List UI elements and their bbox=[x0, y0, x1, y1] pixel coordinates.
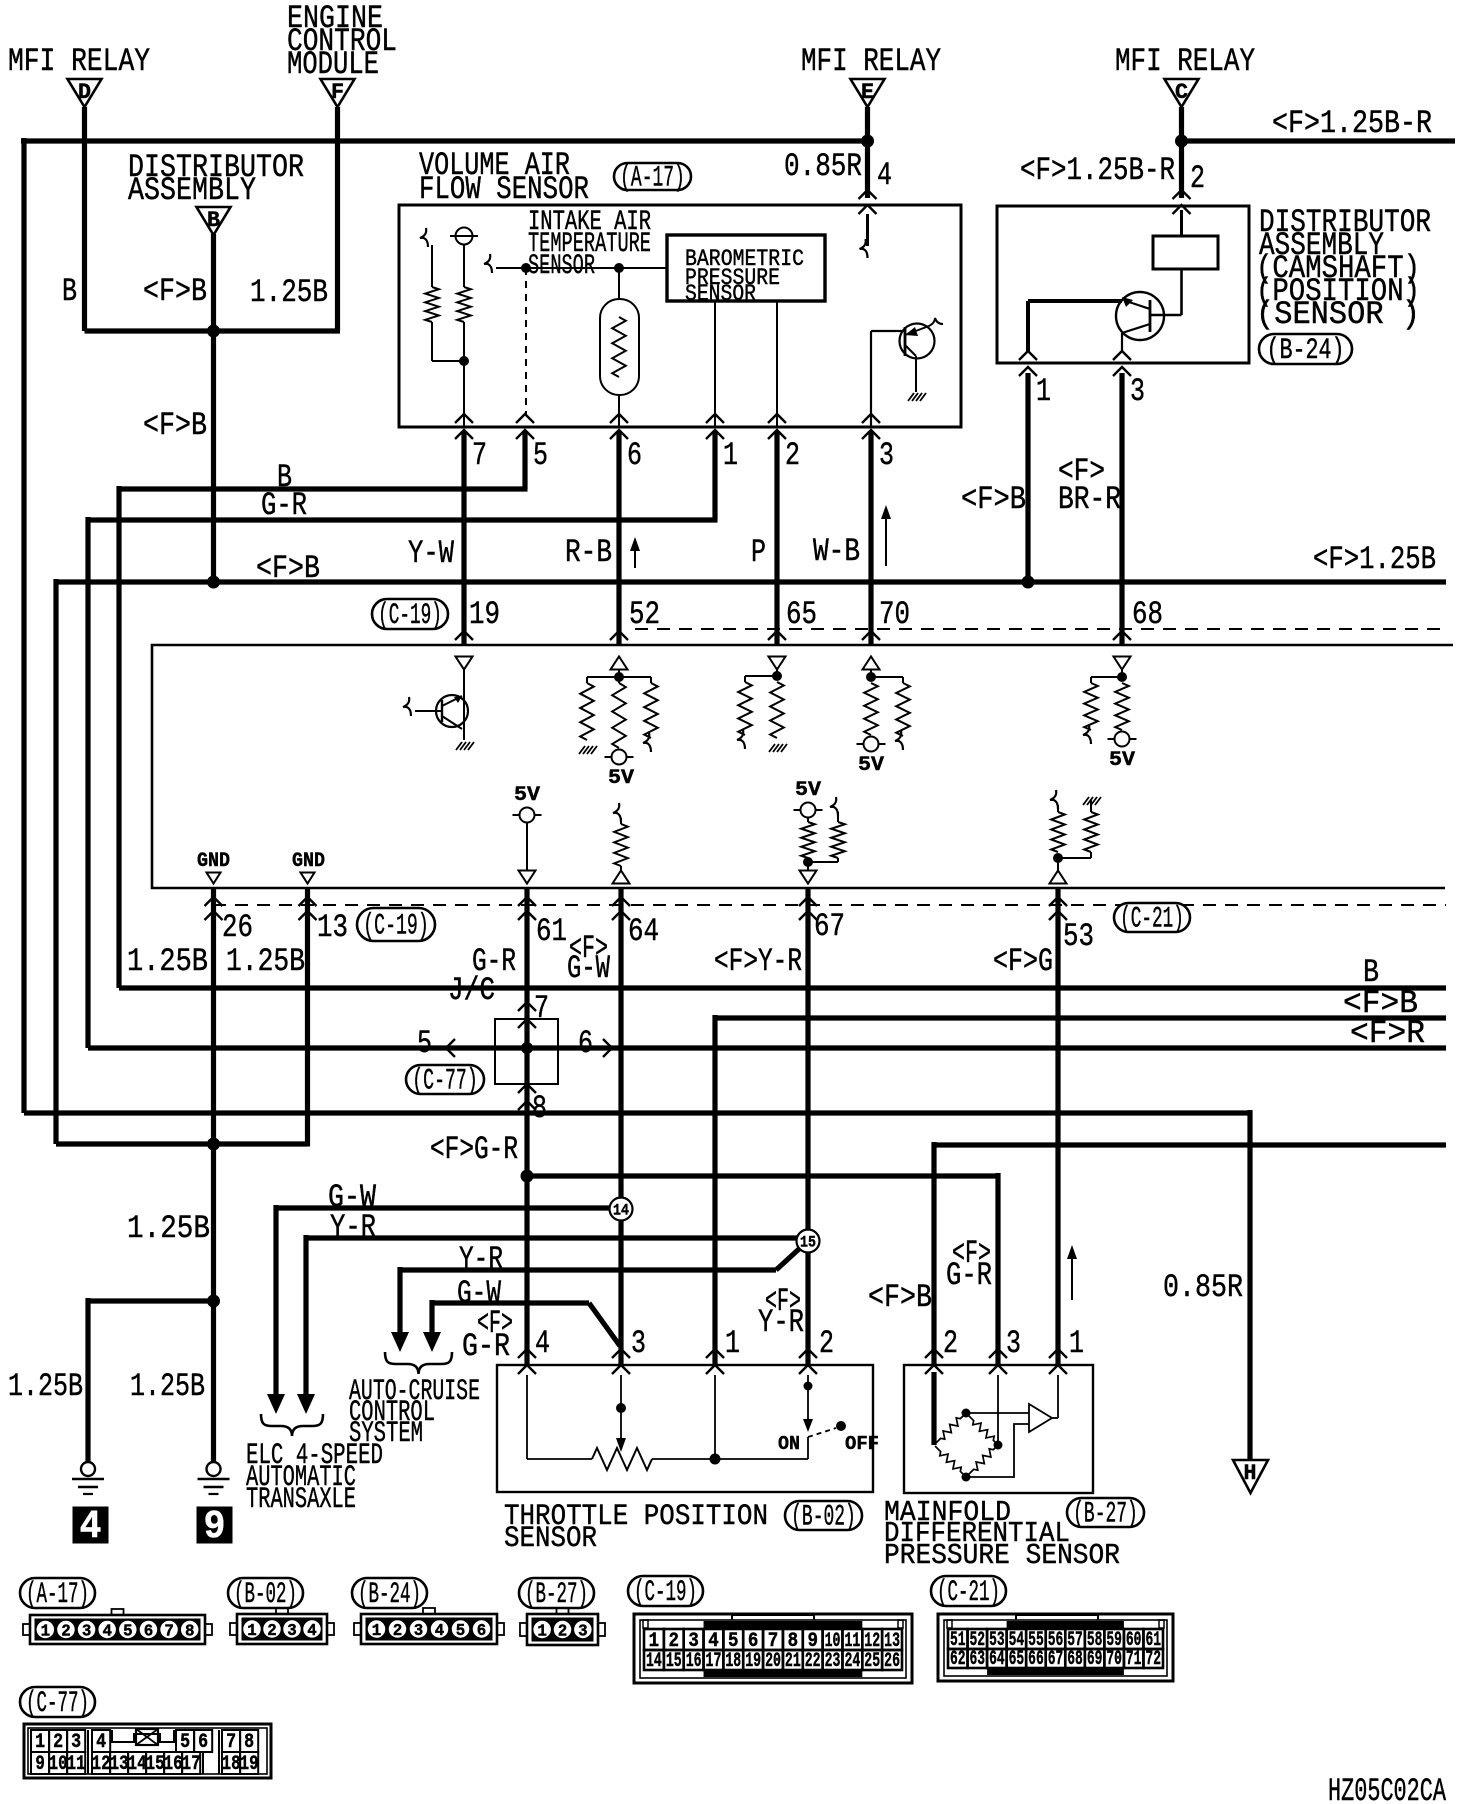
svg-text:15: 15 bbox=[666, 1650, 682, 1673]
pin 67 ECM bottom exit bbox=[799, 897, 845, 945]
svg-text:8: 8 bbox=[244, 1731, 254, 1754]
brace ELC bbox=[261, 1414, 323, 1436]
svg-text:(C-77): (C-77) bbox=[412, 1065, 478, 1099]
pin 70 marker bbox=[863, 657, 880, 670]
pin 65 ECM top entry bbox=[768, 596, 817, 640]
svg-text:19: 19 bbox=[240, 1753, 259, 1776]
svg-text:Y-R: Y-R bbox=[758, 1304, 804, 1341]
svg-text:63: 63 bbox=[970, 1648, 986, 1671]
label ELC 4-SPEED AUTOMATIC TRANSAXLE bbox=[246, 1439, 383, 1517]
svg-text:1: 1 bbox=[537, 1623, 547, 1642]
junction dot pin26/(F)B link bbox=[207, 1138, 220, 1151]
svg-text:18: 18 bbox=[222, 1753, 241, 1776]
svg-text:2: 2 bbox=[267, 1622, 277, 1641]
svg-text:3: 3 bbox=[578, 1623, 588, 1642]
connector label oval B-27 side bbox=[1067, 1498, 1144, 1532]
splice 14 bbox=[610, 1198, 633, 1221]
svg-text:G-R: G-R bbox=[261, 487, 307, 524]
svg-text:OFF: OFF bbox=[845, 1433, 879, 1455]
svg-text:SENSOR: SENSOR bbox=[504, 1522, 597, 1556]
svg-text:GND: GND bbox=[197, 850, 230, 873]
label G-W 2 bbox=[457, 1275, 502, 1312]
svg-text:7: 7 bbox=[534, 990, 549, 1027]
svg-text:C: C bbox=[1175, 80, 1188, 105]
connector label oval B-02 side bbox=[785, 1501, 862, 1535]
label pin5 J/C bbox=[417, 1025, 432, 1062]
svg-text:16: 16 bbox=[686, 1650, 702, 1673]
svg-text:22: 22 bbox=[805, 1650, 821, 1673]
svg-text:3: 3 bbox=[71, 1731, 81, 1754]
wire pin67 to splice 15 bbox=[805, 888, 810, 1230]
label G-R wire bbox=[261, 487, 307, 524]
wire (F)B / (F)1.25B bus bbox=[56, 579, 1446, 1144]
wire B-24 pin3 bbox=[1113, 333, 1131, 645]
wire D-F bottom link bbox=[85, 328, 341, 333]
connector pinout C-19 bbox=[634, 1614, 912, 1683]
label (F) G-R MDP3 bbox=[946, 1235, 992, 1294]
label DISTRIBUTOR ASSEMBLY CAMSHAFT bbox=[1256, 204, 1431, 333]
connector label oval C-77 mid bbox=[406, 1065, 484, 1099]
wire B net pin5 bbox=[119, 431, 528, 988]
svg-text:4: 4 bbox=[102, 1623, 112, 1642]
svg-text:16: 16 bbox=[164, 1753, 183, 1776]
connector label oval C-19 bottom bbox=[357, 908, 435, 944]
pin 6 VAF exit bbox=[610, 414, 642, 474]
wire top bus 0.85R bbox=[21, 138, 868, 1113]
wire from E into VAF box bbox=[859, 107, 877, 258]
svg-text:MFI RELAY: MFI RELAY bbox=[1115, 43, 1255, 80]
junction dot pin26/ground link bbox=[207, 1295, 220, 1308]
svg-text:6: 6 bbox=[627, 437, 642, 474]
dashed connector line C-19/C-21 bottom bbox=[213, 904, 1446, 906]
wire Y-R autocruise bbox=[391, 1249, 799, 1352]
svg-text:1: 1 bbox=[723, 437, 738, 474]
svg-text:26: 26 bbox=[884, 1650, 900, 1673]
label pin 3 B-24 bbox=[1130, 373, 1145, 410]
wire from D down bbox=[82, 107, 87, 331]
pin 65 marker bbox=[769, 657, 786, 670]
svg-text:8: 8 bbox=[185, 1623, 195, 1642]
svg-text:SENSOR: SENSOR bbox=[685, 281, 756, 307]
connector pinout C-77 bbox=[24, 1724, 271, 1778]
wire P pin2 to ECM 65 bbox=[774, 431, 779, 645]
label Y-W bbox=[408, 535, 455, 572]
svg-text:15: 15 bbox=[146, 1753, 165, 1776]
intake air temp sensor wire bbox=[484, 254, 667, 273]
label 0.85R lower bbox=[1163, 1269, 1243, 1306]
label (F) Y-R TPS2 bbox=[758, 1283, 804, 1341]
wire bus 0.85R lower bbox=[24, 1110, 1250, 1460]
box distributor B-24 bbox=[997, 206, 1249, 363]
wire splice15 to TPS pin2 bbox=[805, 1252, 810, 1365]
label MFI RELAY (D) bbox=[8, 43, 150, 80]
svg-text:61: 61 bbox=[536, 913, 567, 950]
svg-text:5V: 5V bbox=[608, 767, 634, 790]
svg-text:D: D bbox=[78, 80, 91, 105]
svg-text:(SENSOR ): (SENSOR ) bbox=[1256, 296, 1420, 333]
svg-text:<F>Y-R: <F>Y-R bbox=[714, 943, 802, 980]
wire G-W autocruise bbox=[423, 1300, 620, 1352]
wire (F)B link y1144 bbox=[56, 1141, 308, 1146]
svg-text:15: 15 bbox=[800, 1234, 816, 1252]
svg-text:9: 9 bbox=[204, 1505, 226, 1550]
label pin 4 VAF bbox=[877, 157, 892, 194]
svg-text:62: 62 bbox=[950, 1648, 966, 1671]
svg-text:Y-R: Y-R bbox=[330, 1209, 376, 1246]
pin 68 marker bbox=[1114, 657, 1131, 670]
box volume air flow sensor bbox=[399, 205, 961, 427]
TPS idle switch bbox=[778, 1375, 879, 1459]
svg-text:6: 6 bbox=[198, 1731, 208, 1754]
label THROTTLE POSITION SENSOR bbox=[504, 1500, 768, 1556]
pin 3 MDP entry bbox=[989, 1325, 1021, 1374]
label (F)B bus right bbox=[1343, 985, 1418, 1022]
svg-text:70: 70 bbox=[1106, 1648, 1122, 1671]
connector label oval C-19 bbox=[628, 1576, 703, 1610]
svg-text:6: 6 bbox=[578, 1025, 593, 1062]
svg-text:(B-02): (B-02) bbox=[791, 1501, 856, 1535]
connector label oval C-77 bbox=[20, 1687, 95, 1721]
svg-text:PRESSURE SENSOR: PRESSURE SENSOR bbox=[884, 1539, 1120, 1572]
arrow up near MDP1 bbox=[1067, 1245, 1077, 1300]
pin 68 ECM top entry bbox=[1113, 596, 1163, 640]
label B bbox=[62, 273, 77, 310]
label 1.25B pin13 bbox=[226, 943, 305, 980]
svg-text:7: 7 bbox=[164, 1623, 174, 1642]
svg-text:66: 66 bbox=[1028, 1648, 1044, 1671]
svg-text:5: 5 bbox=[180, 1731, 190, 1754]
label (F)B bbox=[143, 273, 207, 310]
wire R-B pin6 to ECM 52 bbox=[616, 431, 621, 645]
pin 7 VAF exit bbox=[455, 414, 487, 474]
connector label oval A-17 bbox=[20, 1578, 95, 1612]
GND marker 26 bbox=[197, 850, 230, 884]
pin 52 ECM top entry bbox=[610, 596, 660, 640]
svg-text:2: 2 bbox=[785, 437, 800, 474]
ground symbol 4 bbox=[72, 1462, 104, 1494]
svg-text:67: 67 bbox=[814, 908, 845, 945]
connector label oval B-27 bbox=[519, 1578, 594, 1612]
svg-text:1: 1 bbox=[41, 1623, 51, 1642]
svg-text:1: 1 bbox=[35, 1731, 45, 1754]
svg-text:14: 14 bbox=[613, 1202, 629, 1220]
svg-text:3: 3 bbox=[414, 1622, 424, 1641]
svg-text:5V: 5V bbox=[795, 779, 821, 802]
svg-text:68: 68 bbox=[1067, 1648, 1083, 1671]
connector pinout B-24 bbox=[354, 1608, 504, 1644]
svg-text:69: 69 bbox=[1087, 1648, 1103, 1671]
svg-text:5V: 5V bbox=[514, 784, 540, 807]
junction dot B-dist/(F)B bus bbox=[207, 576, 220, 589]
connector pinout A-17 bbox=[23, 1609, 212, 1644]
resistor pair VAF left bbox=[420, 228, 478, 428]
connector pinout B-02 bbox=[230, 1608, 334, 1644]
wire W-B pin3 to ECM 70 bbox=[868, 431, 873, 645]
pin 3 VAF exit bbox=[862, 414, 894, 474]
pin 26 ECM bottom exit bbox=[205, 897, 254, 946]
svg-text:MODULE: MODULE bbox=[287, 46, 379, 83]
pin 53 ECM bottom exit bbox=[1049, 897, 1094, 955]
ground plate 4 bbox=[73, 1505, 108, 1550]
svg-text:G-R: G-R bbox=[462, 1328, 510, 1365]
svg-text:B: B bbox=[62, 273, 77, 310]
pin 2 MDP entry bbox=[925, 1325, 958, 1374]
5V source pin 61 bbox=[513, 784, 542, 884]
wire from F down bbox=[335, 107, 340, 331]
connector H arrow bbox=[1233, 1460, 1268, 1493]
label AUTO-CRUISE CONTROL SYSTEM bbox=[349, 1375, 480, 1451]
svg-text:65: 65 bbox=[786, 596, 817, 633]
svg-text:(B-24): (B-24) bbox=[358, 1578, 421, 1612]
svg-text:11: 11 bbox=[67, 1753, 86, 1776]
connector B (distributor) bbox=[197, 207, 231, 235]
svg-text:72: 72 bbox=[1145, 1648, 1161, 1671]
label (F) G-R TPS4 bbox=[462, 1305, 513, 1365]
wire from C into B-24 box bbox=[1173, 107, 1191, 214]
wire B-24 base bbox=[1028, 299, 1122, 303]
svg-text:G-W: G-W bbox=[567, 950, 611, 987]
label ENGINE CONTROL MODULE bbox=[287, 0, 397, 83]
svg-text:(B-24): (B-24) bbox=[1266, 334, 1344, 368]
svg-text:<F>1.25B: <F>1.25B bbox=[1313, 541, 1436, 578]
svg-text:5: 5 bbox=[417, 1025, 432, 1062]
label MFI RELAY (E) bbox=[801, 43, 941, 80]
label (F) BR-R bbox=[1058, 453, 1121, 518]
svg-text:(C-19): (C-19) bbox=[378, 599, 442, 633]
svg-text:9: 9 bbox=[35, 1753, 45, 1776]
wire pin64 to TPS pin3 bbox=[618, 888, 623, 1365]
svg-text:3: 3 bbox=[1130, 373, 1145, 410]
svg-text:3: 3 bbox=[879, 437, 894, 474]
svg-text:13: 13 bbox=[317, 909, 348, 946]
box barometric pressure sensor bbox=[667, 235, 825, 301]
pin 13 ECM bottom exit bbox=[299, 897, 349, 946]
label DISTRIBUTOR ASSEMBLY bbox=[128, 149, 304, 209]
wire pin13 down bbox=[305, 888, 310, 1147]
pin 19 marker bbox=[456, 657, 473, 670]
svg-text:13: 13 bbox=[110, 1753, 129, 1776]
svg-text:1.25B: 1.25B bbox=[8, 1368, 83, 1405]
label 1.25B bottom left bbox=[8, 1368, 83, 1405]
wire VAF pin3 inside bbox=[870, 331, 872, 427]
wire pin61 to TPS pin4 bbox=[524, 888, 529, 1365]
label (F)1.25B-R right bbox=[1272, 105, 1432, 142]
svg-text:(A-17): (A-17) bbox=[620, 162, 685, 196]
label (F)B near B-24 pin1 bbox=[961, 481, 1026, 518]
connector label oval B-24 side bbox=[1259, 334, 1352, 368]
svg-text:(A-17): (A-17) bbox=[26, 1578, 89, 1612]
connector C (MFI relay) bbox=[1165, 79, 1199, 107]
svg-text:71: 71 bbox=[1126, 1648, 1142, 1671]
connector pinout C-21 bbox=[938, 1614, 1173, 1681]
label pin 2 B-24 bbox=[1190, 160, 1205, 197]
svg-text:HZ05C02CA: HZ05C02CA bbox=[1328, 1773, 1447, 1804]
svg-text:1: 1 bbox=[725, 1325, 740, 1362]
TPS wiper bbox=[616, 1375, 626, 1452]
label G-W bbox=[328, 1179, 377, 1216]
svg-text:65: 65 bbox=[1009, 1648, 1025, 1671]
svg-text:23: 23 bbox=[825, 1650, 841, 1673]
label B wire bbox=[277, 459, 292, 496]
label VOLUME AIR FLOW SENSOR bbox=[419, 147, 589, 208]
svg-text:17: 17 bbox=[182, 1753, 201, 1776]
svg-text:3: 3 bbox=[1006, 1325, 1021, 1362]
pin 1 MDP entry bbox=[1049, 1325, 1084, 1374]
label INTAKE AIR TEMPERATURE SENSOR bbox=[528, 207, 651, 282]
wire bus (F)B right bbox=[715, 1015, 1446, 1365]
svg-text:ON: ON bbox=[778, 1433, 800, 1455]
svg-text:ASSEMBLY: ASSEMBLY bbox=[128, 172, 256, 209]
svg-text:<F>R: <F>R bbox=[1350, 1015, 1425, 1052]
label W-B bbox=[813, 533, 860, 570]
splice 15 bbox=[797, 1230, 820, 1253]
svg-text:(B-27): (B-27) bbox=[1073, 1498, 1138, 1532]
wire Y-W pin7 to ECM 19 bbox=[461, 431, 466, 645]
svg-text:1.25B: 1.25B bbox=[127, 943, 208, 980]
resistor group pin 52 bbox=[579, 670, 658, 790]
label J/C bbox=[448, 972, 495, 1009]
svg-text:2: 2 bbox=[393, 1622, 403, 1641]
svg-text:1.25B: 1.25B bbox=[226, 943, 305, 980]
svg-text:68: 68 bbox=[1132, 596, 1163, 633]
svg-text:2: 2 bbox=[558, 1623, 568, 1642]
svg-text:B: B bbox=[207, 208, 220, 233]
label 1.25B pin26 bbox=[127, 943, 208, 980]
wire bus (F)R right bbox=[88, 1045, 1446, 1050]
pin 1 VAF exit bbox=[706, 414, 738, 474]
svg-text:(C-77): (C-77) bbox=[26, 1687, 89, 1721]
svg-text:5V: 5V bbox=[858, 754, 884, 777]
label (F)R bus right bbox=[1350, 1015, 1425, 1052]
connector F (ECM) bbox=[321, 79, 355, 107]
svg-text:14: 14 bbox=[646, 1650, 662, 1673]
junction dot (F)G-R branch bbox=[521, 1170, 534, 1183]
5V + resistors pin 67 bbox=[794, 779, 845, 884]
label (F)G-R bbox=[430, 1131, 518, 1168]
wire pin26 ground net bbox=[211, 888, 216, 1462]
resistors pin 53 bbox=[1050, 790, 1102, 884]
svg-text:1.25B: 1.25B bbox=[130, 1368, 205, 1405]
label 1.25B mid bbox=[127, 1210, 210, 1247]
svg-text:1.25B: 1.25B bbox=[127, 1210, 210, 1247]
svg-text:<F>B: <F>B bbox=[143, 273, 207, 310]
svg-text:1: 1 bbox=[372, 1622, 382, 1641]
wire bus B right bbox=[119, 985, 1446, 990]
connector label oval C-21 bbox=[931, 1576, 1006, 1610]
svg-text:19: 19 bbox=[745, 1650, 761, 1673]
svg-text:4: 4 bbox=[80, 1505, 102, 1550]
junction dot pin1/(F)1.25B bus bbox=[1022, 576, 1035, 589]
wire G-R net pin1 bbox=[88, 431, 718, 1048]
svg-text:TRANSAXLE: TRANSAXLE bbox=[246, 1483, 356, 1517]
svg-text:<F>B: <F>B bbox=[143, 407, 207, 444]
svg-text:5: 5 bbox=[123, 1623, 133, 1642]
arrow up near 70 bbox=[881, 505, 891, 566]
svg-text:<F>B: <F>B bbox=[868, 1279, 932, 1316]
svg-text:4: 4 bbox=[877, 157, 892, 194]
svg-text:67: 67 bbox=[1048, 1648, 1064, 1671]
wire ground-4 link y1301 bbox=[88, 1298, 214, 1462]
svg-text:SENSOR: SENSOR bbox=[528, 251, 595, 282]
connector pinout B-27 bbox=[520, 1608, 605, 1645]
wire G-W elc bbox=[267, 1205, 610, 1414]
svg-text:18: 18 bbox=[725, 1650, 741, 1673]
svg-text:14: 14 bbox=[128, 1753, 147, 1776]
label (F)G pin53 bbox=[993, 943, 1053, 980]
GND marker 13 bbox=[292, 850, 325, 884]
pin 2 TPS entry bbox=[799, 1325, 834, 1374]
pin 52 marker bbox=[611, 657, 628, 670]
svg-text:1: 1 bbox=[1069, 1325, 1084, 1362]
svg-text:6: 6 bbox=[144, 1623, 154, 1642]
svg-text:Y-R: Y-R bbox=[459, 1241, 503, 1278]
pin 19 ECM top entry bbox=[455, 596, 500, 640]
wire right bus 1.25B-R bbox=[1182, 138, 1456, 143]
junction dot B/DF link bbox=[207, 325, 220, 338]
svg-text:4: 4 bbox=[307, 1622, 317, 1641]
thermistor IAT bbox=[600, 268, 639, 427]
svg-text:MFI RELAY: MFI RELAY bbox=[801, 43, 941, 80]
label Y-R bbox=[330, 1209, 376, 1246]
connector label oval A-17 top bbox=[614, 162, 691, 196]
wire VAF pin5 dashed bbox=[525, 268, 527, 414]
svg-text:(B-02): (B-02) bbox=[234, 1578, 297, 1612]
svg-text:5V: 5V bbox=[1109, 749, 1135, 772]
resistor pin 64 bbox=[613, 803, 630, 884]
label (F)B MDP2 bbox=[868, 1279, 932, 1316]
label P bbox=[751, 534, 766, 571]
transistor VAF bbox=[871, 318, 943, 401]
svg-text:(C-21): (C-21) bbox=[937, 1576, 1000, 1610]
svg-text:7: 7 bbox=[472, 437, 487, 474]
svg-text:12: 12 bbox=[92, 1753, 111, 1776]
svg-text:<F>B: <F>B bbox=[256, 550, 320, 587]
svg-text:4: 4 bbox=[435, 1622, 445, 1641]
pin 4 TPS entry bbox=[518, 1325, 550, 1374]
wire pin53 to MDP pin1 bbox=[1055, 888, 1060, 1365]
svg-text:F: F bbox=[331, 80, 344, 105]
pin 5 VAF exit bbox=[516, 414, 548, 474]
svg-text:GND: GND bbox=[292, 850, 325, 873]
pickup coil B-24 bbox=[1151, 210, 1218, 315]
pin 1 TPS entry bbox=[706, 1325, 740, 1374]
label 0.85R bbox=[784, 148, 862, 185]
svg-text:P: P bbox=[751, 534, 766, 571]
label R-B bbox=[565, 534, 612, 571]
junction C-77 square bbox=[446, 1002, 612, 1110]
label MFI RELAY (C) bbox=[1115, 43, 1255, 80]
svg-text:4: 4 bbox=[96, 1731, 106, 1754]
svg-text:H: H bbox=[1244, 1461, 1257, 1486]
svg-text:25: 25 bbox=[864, 1650, 880, 1673]
connector E (MFI relay) bbox=[851, 79, 885, 107]
svg-text:64: 64 bbox=[989, 1648, 1005, 1671]
label pin8 J/C bbox=[532, 1090, 547, 1127]
svg-text:0.85R: 0.85R bbox=[1163, 1269, 1243, 1306]
svg-text:10: 10 bbox=[49, 1753, 68, 1776]
svg-text:R-B: R-B bbox=[565, 534, 612, 571]
box throttle position sensor bbox=[497, 1365, 873, 1492]
svg-text:<F>G-R: <F>G-R bbox=[430, 1131, 518, 1168]
junction dot C/right bus bbox=[1175, 135, 1188, 148]
svg-text:3: 3 bbox=[631, 1325, 646, 1362]
svg-text:3: 3 bbox=[82, 1623, 92, 1642]
svg-text:52: 52 bbox=[629, 596, 660, 633]
svg-text:(C-19): (C-19) bbox=[634, 1576, 697, 1610]
svg-text:2: 2 bbox=[61, 1623, 71, 1642]
svg-text:19: 19 bbox=[469, 596, 500, 633]
svg-text:7: 7 bbox=[226, 1731, 236, 1754]
